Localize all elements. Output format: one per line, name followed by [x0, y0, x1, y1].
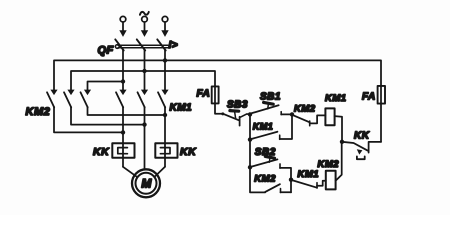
pushbutton SB2 start reverse [251, 156, 280, 168]
thermal relay KK heater left [112, 143, 134, 158]
svg-text:SB3: SB3 [227, 100, 248, 111]
wire bus1 phase3 to KM2-1 and right fuse [54, 60, 381, 90]
contactor KM2 main contact 2 [64, 90, 75, 108]
wire KM2 out3 to phase3 [88, 107, 166, 115]
node bus3-phase1 junction [121, 79, 125, 83]
supply terminal L3 [162, 16, 168, 31]
arrow into QF pole 2 [141, 30, 148, 37]
arrow into QF pole 3 [161, 30, 168, 37]
arrow into QF pole 1 [119, 30, 126, 37]
QF linkage bar [118, 45, 168, 48]
wire motor lead 1 [123, 107, 137, 177]
contact KM1 NC interlock [292, 180, 318, 188]
wire FA1 to SB3 [215, 103, 223, 113]
motor M [132, 169, 160, 197]
svg-text:M: M [141, 176, 152, 190]
svg-text:KM1: KM1 [298, 169, 320, 180]
circuit breaker QF blade 2 [137, 39, 145, 50]
thermal relay contact KK [342, 142, 381, 159]
contactor KM2 main contact 1 [47, 90, 58, 108]
svg-text:I>: I> [169, 40, 179, 51]
node bus1-phase3 junction [163, 58, 167, 62]
node bus2-phase2 junction [142, 69, 146, 73]
circuit breaker QF blade 1 [115, 39, 123, 50]
contactor KM1 main contact 2 [138, 90, 149, 108]
svg-text:KK: KK [180, 146, 197, 158]
pushbutton SB3 stop [221, 111, 239, 126]
svg-text:QF: QF [98, 45, 114, 57]
wire KM2 out1 to phase1 [54, 107, 123, 132]
wire motor lead 2 [144, 107, 146, 169]
svg-text:SB1: SB1 [260, 92, 281, 103]
wire coil KM1 to KK node [335, 116, 342, 142]
wire SB2 to node C [280, 168, 291, 193]
wire through fuse FA2 [380, 86, 382, 104]
supply terminal L1 [120, 16, 126, 31]
wire motor lead 3 [155, 107, 166, 177]
node out1 junction [121, 130, 125, 134]
AC tilde symbol [140, 12, 149, 15]
wire KM2 out2 to phase2 [71, 107, 145, 125]
svg-text:SB2: SB2 [255, 147, 276, 158]
node A3 SB2 tap [248, 165, 252, 169]
svg-text:KM1: KM1 [325, 93, 347, 104]
QF pivot circle [115, 45, 119, 49]
svg-text:KM2: KM2 [26, 106, 51, 118]
thermal relay KK heater right [155, 143, 177, 158]
wire coil KM2 to KK node [336, 142, 342, 181]
svg-text:KK: KK [354, 131, 370, 142]
contactor KM1 main contact 3 [158, 90, 169, 108]
wire phase 2 vertical [144, 50, 146, 90]
node A2 KM1 aux tap [248, 137, 252, 141]
contactor KM1 main contact 1 [116, 90, 127, 108]
circuit breaker QF blade 3 [157, 39, 165, 50]
wire phase 1 vertical [122, 50, 124, 90]
svg-text:KM1: KM1 [253, 121, 274, 131]
svg-text:KM1: KM1 [170, 103, 193, 114]
coil KM2 [326, 171, 336, 190]
node KK junction [340, 140, 344, 144]
node C [289, 178, 293, 182]
wire KM1 aux to node B [280, 114, 292, 139]
wire phase 3 vertical [164, 50, 166, 90]
pushbutton SB1 start forward [251, 102, 282, 114]
wire node A column [250, 114, 265, 192]
coil KM1 [325, 108, 334, 125]
node out3 junction [163, 113, 167, 117]
wire bus2 phase2 to KM2-2 and left fuse [71, 71, 215, 90]
fuse FA2 [378, 86, 385, 104]
node B [290, 112, 294, 116]
wire right fuse vertical [380, 104, 382, 142]
wire KM2 NC to coil KM1 [310, 115, 326, 123]
wire KM2 aux to node C [281, 191, 292, 193]
svg-text:KK: KK [93, 146, 110, 158]
wire KM1 NC to coil KM2 [317, 181, 326, 186]
svg-text:KM2: KM2 [318, 159, 340, 170]
wire bus3 phase1 to KM2-3 [88, 82, 124, 91]
svg-text:FA: FA [197, 89, 211, 100]
wire SB1 to node B [281, 113, 292, 115]
node A [248, 112, 252, 116]
svg-text:KM2: KM2 [254, 174, 276, 185]
contact KM2 aux self-hold [265, 184, 281, 192]
svg-text:KM2: KM2 [294, 104, 316, 115]
contactor KM2 main contact 3 [81, 90, 92, 108]
node out2 junction [142, 122, 146, 126]
contact KM2 NC interlock [292, 115, 309, 126]
supply terminal L2 [142, 16, 148, 31]
svg-text:FA: FA [362, 92, 376, 103]
fuse FA1 [212, 86, 219, 103]
wire SB3 to node A [240, 114, 250, 118]
contact KM1 aux self-hold [251, 132, 280, 140]
